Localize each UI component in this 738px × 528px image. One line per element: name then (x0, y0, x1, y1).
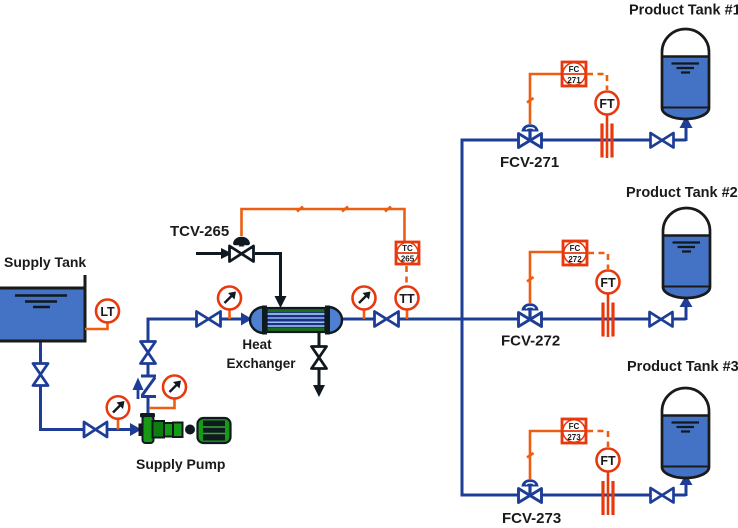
valve V5 after HX (375, 312, 399, 327)
svg-text:Product Tank #1: Product Tank #1 (629, 3, 738, 19)
orifice branch2 (603, 294, 613, 338)
orifice branch3 (603, 472, 613, 516)
instrument FT branch3 (597, 449, 620, 472)
svg-text:Supply Tank: Supply Tank (4, 254, 86, 270)
svg-text:FCV-272: FCV-272 (501, 333, 560, 350)
controller FC-272 (563, 241, 587, 265)
pipe main feed line (147, 318, 687, 321)
arrow into tank 3 (680, 474, 693, 485)
pipe supply tank outlet down (39, 341, 42, 430)
drain arrow down (313, 385, 325, 397)
signal wire TCV to TC-265 (242, 207, 405, 242)
pipe branch 1 (461, 127, 687, 141)
heat exchanger (250, 306, 342, 335)
drain valve (312, 347, 327, 369)
svg-text:271: 271 (567, 76, 581, 85)
svg-text:Exchanger: Exchanger (226, 356, 296, 371)
pipe header vertical (461, 140, 464, 495)
black drain pipe below HX (318, 333, 321, 387)
arrow into heat exchanger (241, 313, 252, 326)
orifice branch1 (602, 115, 612, 159)
valve tank3 inlet (651, 488, 674, 503)
gauge PI pump discharge (149, 376, 186, 409)
controller FC-271 (562, 62, 586, 86)
valve TCV-265 (230, 237, 254, 262)
instrument LT (96, 300, 119, 323)
gauge PI HX outlet (353, 287, 376, 320)
controller TC-265 (396, 242, 419, 264)
supply pump (139, 413, 231, 443)
svg-text:LT: LT (100, 305, 115, 319)
controller FC-273 (562, 419, 586, 443)
arrow into tank 1 (680, 116, 693, 128)
svg-text:FCV-273: FCV-273 (502, 510, 561, 527)
control valve FCV-271 (519, 124, 542, 147)
valve tank1 inlet (651, 133, 674, 148)
black arrow into TCV (221, 248, 232, 259)
instrument FT branch1 (596, 92, 619, 115)
control valve FCV-273 (519, 479, 542, 502)
svg-text:272: 272 (568, 255, 582, 264)
instrument FT branch2 (597, 271, 620, 294)
svg-text:Product Tank #2: Product Tank #2 (626, 185, 738, 201)
valve tank2 inlet (650, 312, 673, 327)
signal wire FCV-272 (527, 252, 563, 303)
svg-text:265: 265 (401, 255, 415, 264)
product tank 2 (663, 208, 710, 298)
svg-text:FT: FT (600, 454, 616, 468)
black line into TCV (196, 252, 222, 255)
valve V4 main line before HX (197, 312, 221, 327)
gauge PI HX inlet (218, 287, 241, 320)
arrow into tank 2 (680, 296, 693, 307)
svg-text:Supply Pump: Supply Pump (136, 456, 225, 472)
control valve FCV-272 (519, 303, 542, 326)
svg-text:TCV-265: TCV-265 (170, 223, 229, 240)
gauge PI pump inlet (107, 396, 130, 429)
wire pump riser (147, 319, 150, 414)
valve V2 horizontal before pump (84, 422, 107, 437)
black pipe TCV to HX top (255, 254, 281, 299)
black arrow into HX top (275, 296, 287, 308)
svg-text:FT: FT (600, 276, 616, 290)
pipe branch 3 (461, 484, 687, 496)
product tank 1 (662, 29, 709, 119)
arrow into pump (130, 423, 142, 436)
dashed signal FC-272 to FT (588, 253, 608, 269)
svg-text:273: 273 (567, 433, 581, 442)
svg-text:Product Tank #3: Product Tank #3 (627, 359, 738, 375)
svg-text:FC: FC (569, 65, 580, 74)
pipe to pump inlet (39, 428, 132, 431)
product tank 3 (662, 388, 709, 478)
check valve riser (133, 376, 157, 399)
dashed signal TC-265 to TT (405, 266, 408, 285)
svg-text:TC: TC (402, 244, 413, 253)
svg-text:FT: FT (599, 97, 615, 111)
svg-text:FC: FC (569, 422, 580, 431)
svg-text:FCV-271: FCV-271 (500, 154, 559, 171)
svg-text:TT: TT (399, 292, 415, 306)
svg-text:FC: FC (570, 244, 581, 253)
valve V3 riser lower bowtie (141, 342, 156, 364)
signal wire LT (85, 322, 108, 329)
signal wire FCV-273 (527, 431, 562, 479)
valve V1 vertical below tank (33, 364, 48, 386)
instrument TT (396, 287, 419, 320)
svg-text:Heat: Heat (242, 337, 272, 352)
signal wire FCV-271 (527, 74, 562, 124)
dashed signal FC-273 to FT (587, 431, 608, 447)
pipe tank2 stub (685, 306, 688, 320)
supply tank (0, 275, 85, 341)
dashed signal FC-271 to FT (587, 74, 607, 90)
